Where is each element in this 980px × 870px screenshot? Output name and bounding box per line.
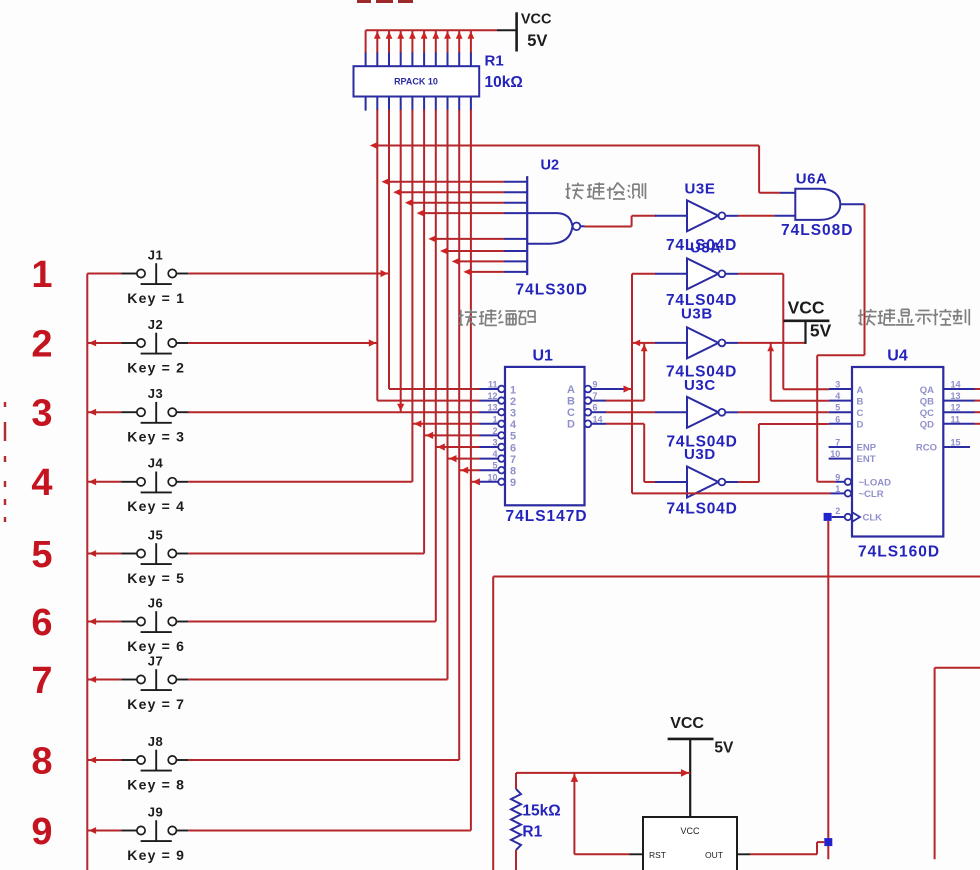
svg-text:~CLR: ~CLR [859, 489, 884, 500]
node key row 6 junction [89, 618, 97, 625]
svg-text:U3A: U3A [690, 239, 722, 256]
svg-text:12: 12 [951, 403, 961, 413]
wire U3B output to U4 B and VCC stub [738, 343, 829, 401]
svg-text:9: 9 [31, 811, 52, 853]
svg-text:8: 8 [31, 740, 52, 782]
svg-text:10: 10 [487, 472, 497, 482]
wire top pull-up bus [366, 29, 517, 31]
wire 555 OUT lead to CLK net [737, 842, 824, 854]
wire CLK vertical to 555 OUT [827, 521, 829, 859]
svg-text:6: 6 [31, 602, 52, 644]
wire J3 row left lead [87, 411, 121, 413]
svg-text:6: 6 [593, 403, 598, 413]
svg-text:Key = 6: Key = 6 [127, 638, 185, 654]
label 按键编码 key encode [459, 309, 536, 326]
svg-text:14: 14 [951, 380, 961, 390]
svg-text:~LOAD: ~LOAD [859, 477, 892, 488]
label U3C [684, 377, 716, 394]
wire col2 to U6A input 1 [370, 142, 759, 193]
svg-text:VCC: VCC [788, 297, 825, 317]
gate U6A 74LS08D AND [774, 170, 864, 239]
power VCC mid symbol 5V [784, 297, 832, 344]
pin U1.14 output D [567, 414, 606, 430]
wire J8 row left lead [87, 759, 121, 761]
wire VCC rail to R1 and RST [516, 769, 690, 854]
svg-text:5V: 5V [714, 739, 734, 756]
pin U1.11 input 1 [480, 380, 517, 397]
IC U1 74LS147D priority encoder [505, 347, 588, 525]
wire J3 row to U1 pin 13 [188, 404, 479, 413]
pin U4.7 ENP [829, 438, 877, 454]
pin U1.7 output B [567, 391, 606, 407]
wire U6A output to U4 ~LOAD [817, 204, 864, 482]
svg-text:Key = 4: Key = 4 [127, 498, 185, 514]
wire J9 row left lead [87, 830, 121, 832]
node key number 7 [31, 660, 52, 702]
svg-text:U2: U2 [541, 158, 560, 174]
svg-text:10: 10 [830, 449, 840, 459]
wire U1 D to U3D input [606, 424, 655, 482]
pin U1.12 input 2 [480, 391, 517, 408]
svg-text:R1: R1 [485, 53, 504, 70]
svg-text:1: 1 [510, 384, 516, 396]
svg-text:5: 5 [492, 461, 497, 471]
wire U1 B to U3B input [606, 343, 655, 401]
pin U4.12 QC [920, 403, 980, 419]
wire U3D output to U4 D [738, 424, 829, 482]
svg-text:RPACK 10: RPACK 10 [394, 77, 438, 87]
svg-text:74LS04D: 74LS04D [667, 501, 738, 518]
svg-text:D: D [567, 419, 575, 431]
svg-text:Key = 7: Key = 7 [127, 696, 185, 712]
svg-text:U6A: U6A [796, 170, 828, 187]
svg-text:VCC: VCC [680, 826, 700, 836]
pin U1.6 output C [567, 403, 606, 419]
svg-text:RCO: RCO [916, 443, 937, 454]
switch J7 Key = 7 [122, 653, 189, 712]
node key number 5 [31, 534, 52, 576]
wire col9 to U2 input 7 [452, 258, 504, 265]
wire col8 to U2 input 6 [440, 248, 504, 255]
svg-text:3: 3 [31, 393, 52, 435]
svg-text:9: 9 [835, 472, 840, 482]
svg-text:RST: RST [649, 850, 666, 860]
svg-text:Key = 1: Key = 1 [127, 290, 185, 306]
switch J4 Key = 4 [122, 456, 189, 514]
pin U4.3 A [829, 380, 864, 396]
pin U4.5 C [829, 403, 864, 419]
node key row 3 junction [89, 409, 97, 416]
pin U1.13 input 3 [480, 403, 517, 420]
svg-text:7: 7 [593, 391, 598, 401]
svg-text:Key = 2: Key = 2 [127, 359, 185, 375]
svg-text:B: B [857, 396, 864, 407]
svg-text:QC: QC [920, 408, 934, 419]
switch J5 Key = 5 [122, 527, 189, 586]
wire pull-up column 9 [458, 110, 460, 760]
svg-text:4: 4 [492, 449, 497, 459]
svg-text:2: 2 [510, 396, 516, 408]
label U3D [684, 446, 716, 463]
svg-text:J8: J8 [148, 734, 163, 749]
wire U1 A to U3A / ~CLR net [606, 274, 831, 494]
pin U4.1 ~CLR [831, 484, 884, 500]
wire cropped artifacts top edge [357, 0, 413, 3]
wire pull-up column 7 [435, 110, 437, 622]
power VCC bottom symbol 5V [668, 715, 734, 817]
inverter U3E 74LS04D [655, 181, 738, 232]
power VCC top symbol 5V [517, 11, 552, 51]
wire U3A output to U4 A [738, 274, 829, 389]
wire pull-up column 4 [400, 110, 402, 413]
svg-text:J1: J1 [148, 247, 163, 262]
node key number 6 [31, 602, 52, 644]
node key row 4 junction [89, 478, 97, 485]
svg-text:3: 3 [492, 438, 497, 448]
svg-text:QD: QD [920, 420, 934, 431]
wire J8 row right lead [188, 759, 459, 761]
svg-text:Key = 3: Key = 3 [127, 429, 185, 445]
svg-text:15kΩ: 15kΩ [522, 803, 560, 820]
svg-text:Key = 5: Key = 5 [127, 570, 185, 586]
inverter U3B 74LS04D [655, 327, 738, 380]
gate U2 74LS30D 8-input NAND [504, 158, 588, 299]
wire pull-up column 8 [447, 110, 449, 680]
wire pull-up column 3 [388, 110, 390, 389]
svg-text:A: A [857, 385, 864, 396]
wire RPACK top pins [366, 30, 475, 66]
label U3B [681, 306, 713, 323]
pin U4.14 QA [920, 380, 980, 396]
node key number 8 [31, 740, 52, 782]
svg-text:U3C: U3C [684, 377, 716, 394]
wire col10 to U1 pin feed 9 [471, 478, 480, 485]
svg-text:U1: U1 [533, 347, 554, 364]
pin U4.10 ENT [829, 449, 876, 465]
switch J3 Key = 3 [122, 386, 189, 445]
svg-text:10kΩ: 10kΩ [485, 74, 523, 91]
svg-text:7: 7 [510, 454, 516, 466]
pin U1.3 input 6 [480, 438, 517, 455]
svg-text:A: A [567, 384, 575, 396]
node key row 2 junction [89, 340, 97, 347]
wire J5 row left lead [87, 553, 121, 555]
svg-text:U4: U4 [887, 347, 908, 364]
wire col2 to U1 pin 12 [377, 400, 479, 402]
pin U1.1 input 4 [480, 414, 517, 431]
svg-text:11: 11 [951, 414, 961, 424]
svg-text:6: 6 [835, 414, 840, 424]
node key number 3 [31, 393, 52, 435]
wire col8 to U1 pin feed 7 [448, 455, 480, 462]
pin U1.4 input 7 [480, 449, 517, 466]
label 按键检测 key detect [566, 182, 646, 199]
switch J9 Key = 9 [122, 804, 189, 863]
svg-text:J3: J3 [148, 386, 163, 401]
wire J1 row left lead [87, 273, 121, 275]
wire U3E output to U6A input 2 [738, 215, 774, 217]
svg-text:74LS08D: 74LS08D [781, 222, 853, 239]
svg-text:3: 3 [835, 380, 840, 390]
svg-text:J6: J6 [148, 595, 163, 610]
pin U1.2 input 5 [480, 426, 517, 443]
pin U4.15 RCO [916, 438, 970, 454]
svg-text:4: 4 [510, 419, 517, 431]
IC U4 74LS160D counter [852, 347, 943, 560]
svg-text:9: 9 [510, 477, 516, 489]
svg-text:3: 3 [510, 408, 516, 420]
svg-text:VCC: VCC [521, 11, 552, 27]
pin U4.13 QB [920, 391, 980, 407]
svg-text:74LS160D: 74LS160D [858, 543, 940, 560]
svg-text:12: 12 [487, 391, 497, 401]
node key number 9 [31, 811, 52, 853]
svg-text:9: 9 [593, 380, 598, 390]
wire U3C output to U4 C [738, 411, 829, 413]
svg-text:C: C [567, 407, 575, 419]
svg-text:J4: J4 [148, 456, 164, 471]
wire J4 row right lead [188, 481, 412, 483]
wire U6A input 1 stub [759, 192, 780, 194]
wire J4 row left lead [87, 481, 121, 483]
node CLK net square [824, 513, 832, 521]
pin U4.6 D [829, 414, 864, 430]
svg-text:13: 13 [951, 391, 961, 401]
wire J2 row right lead [188, 339, 377, 346]
timer 555 box [643, 817, 737, 870]
svg-text:13: 13 [487, 403, 497, 413]
svg-text:4: 4 [835, 391, 840, 401]
wire J6 row right lead [188, 621, 435, 623]
svg-text:QA: QA [920, 385, 934, 396]
wire 555 RST lead [574, 853, 643, 855]
wire J1 row right lead [188, 270, 389, 277]
svg-text:U3B: U3B [681, 306, 713, 323]
svg-text:CLK: CLK [863, 513, 883, 524]
wire col7 to U1 pin feed 6 [436, 443, 480, 450]
pin U1.5 input 8 [480, 461, 517, 478]
svg-text:ENT: ENT [857, 454, 876, 465]
svg-text:Key = 9: Key = 9 [127, 847, 185, 863]
wire pull-up column 2 [376, 110, 378, 401]
node key number 1 [31, 254, 52, 296]
svg-text:5: 5 [31, 534, 52, 576]
pin U1.9 output A [567, 380, 606, 396]
svg-text:2: 2 [835, 506, 840, 516]
svg-text:1: 1 [492, 414, 497, 424]
wire U1 C to U3C input [606, 411, 655, 413]
wire col3 to U1 pin 11 [389, 388, 480, 390]
wire left edge cropped marks [4, 402, 7, 522]
svg-text:15: 15 [951, 438, 961, 448]
svg-text:U3D: U3D [684, 446, 716, 463]
svg-text:6: 6 [510, 442, 516, 454]
svg-text:VCC: VCC [670, 715, 704, 732]
wire col6 to U2 input 4 [417, 210, 504, 217]
wire RPACK bottom pins [366, 97, 471, 111]
svg-text:11: 11 [488, 380, 498, 390]
label 按键显示控制 key display control [858, 309, 969, 326]
svg-text:5: 5 [510, 431, 516, 443]
wire J7 row right lead [188, 679, 447, 681]
pin U1.10 input 9 [480, 472, 517, 489]
svg-text:QB: QB [920, 396, 934, 407]
wire col9 to U1 pin feed 8 [459, 467, 479, 474]
svg-text:1: 1 [835, 484, 840, 494]
wire pull-up column 5 [411, 110, 413, 482]
wire col5 to U2 input 3 [405, 199, 504, 206]
label U3E 74LS04D and U3A overlapped [666, 237, 737, 256]
wire J9 row right lead [188, 830, 471, 832]
wire col3 to U2 input 1 [382, 178, 505, 185]
node key number 2 [31, 323, 52, 365]
wire U2 output to U3E input [585, 216, 657, 227]
svg-text:J9: J9 [148, 804, 163, 819]
node key row 8 junction [89, 757, 97, 764]
pin U4.11 QD [920, 414, 980, 430]
wire J5 row right lead [188, 553, 424, 555]
svg-text:14: 14 [593, 414, 603, 424]
inverter U3C 74LS04D [655, 397, 738, 451]
svg-text:5: 5 [835, 403, 840, 413]
wire pull-up column 10 [470, 110, 472, 831]
wire col6 to U1 pin feed 5 [424, 432, 479, 439]
pin U4.2 CLK with clock mark [832, 506, 882, 524]
svg-text:8: 8 [510, 466, 516, 478]
wire col10 to U2 input 8 [463, 269, 504, 276]
resistor pack R1 RPACK 10 [354, 66, 480, 96]
switch J8 Key = 8 [122, 734, 189, 793]
wire col5 to U1 pin feed 4 [412, 420, 479, 427]
node key row 1 junction [0, 0, 1, 1]
svg-text:D: D [857, 420, 864, 431]
svg-text:J5: J5 [148, 527, 163, 542]
inverter U3A 74LS04D [655, 258, 738, 309]
svg-text:C: C [857, 408, 864, 419]
node 555 OUT net square [824, 838, 832, 846]
resistor R1 15k [511, 789, 561, 870]
svg-text:74LS30D: 74LS30D [516, 281, 588, 298]
wire long rail y576 [493, 577, 980, 870]
node key row 5 junction [89, 550, 97, 557]
node key row 9 junction [89, 827, 97, 834]
svg-text:J7: J7 [148, 653, 163, 668]
svg-text:J2: J2 [148, 317, 163, 332]
wire pull-up column 6 [423, 110, 425, 554]
svg-text:R1: R1 [522, 824, 542, 841]
pin U4.4 B [829, 391, 864, 407]
node key row 7 junction [89, 676, 97, 683]
wire J7 row left lead [87, 679, 121, 681]
svg-text:B: B [567, 395, 575, 407]
switch J2 Key = 2 [122, 317, 189, 376]
svg-text:7: 7 [835, 438, 840, 448]
switch J1 Key = 1 [122, 247, 189, 306]
svg-text:4: 4 [31, 462, 52, 504]
wire J2 row left lead [87, 342, 121, 344]
wire right entry y668 [935, 668, 980, 860]
switch J6 Key = 6 [122, 595, 189, 654]
wire col7 to U2 input 5 [428, 236, 504, 243]
svg-text:U3E: U3E [685, 181, 716, 198]
wire J3 row switch lead [188, 411, 190, 413]
svg-text:OUT: OUT [705, 850, 723, 860]
inverter U3D 74LS04D [655, 467, 738, 518]
svg-text:2: 2 [31, 323, 52, 365]
pin U4.9 ~LOAD [835, 472, 891, 488]
wire left key bus [86, 274, 88, 870]
svg-text:7: 7 [31, 660, 52, 702]
value label R1 10k [485, 53, 523, 92]
svg-text:Key = 8: Key = 8 [127, 776, 185, 792]
svg-text:5V: 5V [527, 32, 547, 50]
svg-text:1: 1 [31, 254, 52, 296]
node key number 4 [31, 462, 52, 504]
svg-text:5V: 5V [810, 321, 832, 341]
wire col4 to U2 input 2 [393, 189, 504, 196]
svg-text:2: 2 [492, 426, 497, 436]
svg-text:74LS147D: 74LS147D [506, 508, 588, 525]
svg-text:ENP: ENP [857, 443, 877, 454]
wire J6 row left lead [87, 621, 121, 623]
